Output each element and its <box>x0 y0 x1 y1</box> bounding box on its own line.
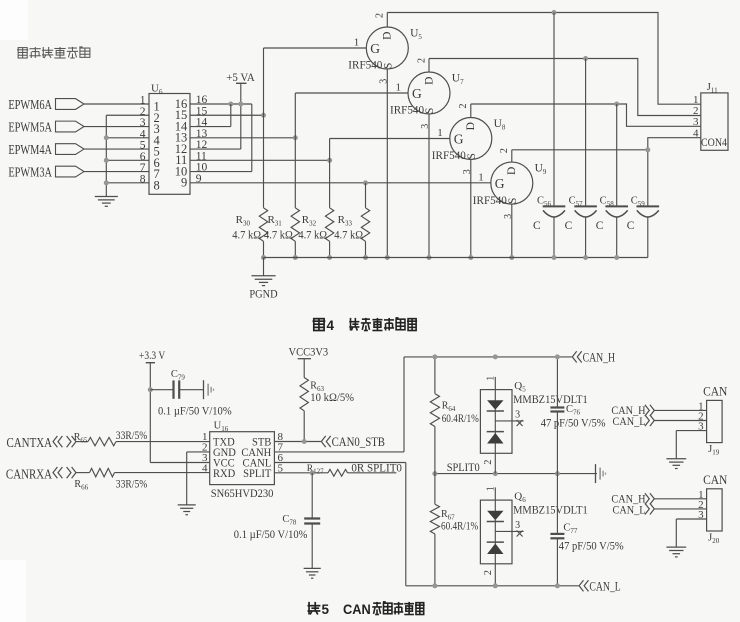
svg-text:S: S <box>507 198 519 204</box>
svg-text:EPWM5A: EPWM5A <box>8 119 52 135</box>
svg-text:2: 2 <box>375 13 386 18</box>
svg-text:S: S <box>383 63 395 69</box>
svg-text:CAN_L: CAN_L <box>613 415 646 428</box>
svg-text:1: 1 <box>354 37 360 49</box>
svg-text:5: 5 <box>322 602 330 617</box>
svg-text:SN65HVD230: SN65HVD230 <box>211 487 274 500</box>
svg-text:IRF540: IRF540 <box>432 149 466 162</box>
svg-text:2: 2 <box>458 104 469 109</box>
svg-text:2: 2 <box>499 148 510 153</box>
svg-text:CAN0_STB: CAN0_STB <box>332 435 386 449</box>
svg-text:SPLIT: SPLIT <box>243 467 271 480</box>
svg-text:MMBZ15VDLT1: MMBZ15VDLT1 <box>513 393 588 406</box>
svg-text:0R SPLIT0: 0R SPLIT0 <box>351 462 402 474</box>
svg-text:10 kΩ/5%: 10 kΩ/5% <box>310 391 354 404</box>
svg-text:4.7 kΩ: 4.7 kΩ <box>264 229 293 242</box>
svg-text:IRF540: IRF540 <box>390 103 424 116</box>
svg-text:EPWM4A: EPWM4A <box>8 141 52 157</box>
svg-text:CAN: CAN <box>343 602 371 617</box>
svg-text:4: 4 <box>140 128 146 140</box>
svg-text:4.7 kΩ: 4.7 kΩ <box>232 229 261 242</box>
svg-text:G: G <box>370 41 380 56</box>
svg-text:33R/5%: 33R/5% <box>116 478 147 491</box>
svg-text:CON4: CON4 <box>701 136 727 149</box>
svg-text:33R/5%: 33R/5% <box>116 429 147 442</box>
svg-text:D: D <box>465 122 477 130</box>
svg-text:47 pF/50 V/5%: 47 pF/50 V/5% <box>541 417 606 430</box>
svg-text:RXD: RXD <box>213 467 235 480</box>
svg-text:EPWM6A: EPWM6A <box>8 96 52 112</box>
svg-text:G: G <box>412 86 422 101</box>
svg-text:4.7 kΩ: 4.7 kΩ <box>298 229 327 242</box>
svg-text:+5 VA: +5 VA <box>226 72 255 85</box>
svg-text:1: 1 <box>486 376 497 381</box>
svg-text:+3.3 V: +3.3 V <box>139 349 165 362</box>
svg-text:D: D <box>382 32 394 40</box>
svg-text:3: 3 <box>140 117 146 129</box>
svg-text:CANTXA: CANTXA <box>7 435 52 451</box>
svg-text:S: S <box>424 108 436 114</box>
svg-text:CAN: CAN <box>703 384 728 399</box>
svg-text:2: 2 <box>483 460 494 465</box>
svg-text:G: G <box>454 132 464 147</box>
svg-text:3: 3 <box>693 116 699 128</box>
svg-text:CAN_H: CAN_H <box>583 351 615 364</box>
svg-text:2: 2 <box>416 58 427 63</box>
svg-text:1: 1 <box>140 95 146 107</box>
svg-text:CAN_L: CAN_L <box>613 504 646 517</box>
svg-text:IRF540: IRF540 <box>348 58 382 71</box>
svg-text:S: S <box>466 153 478 159</box>
svg-text:G: G <box>495 176 505 191</box>
svg-text:1: 1 <box>693 94 699 106</box>
svg-text:3: 3 <box>515 520 520 531</box>
svg-text:8: 8 <box>140 173 146 185</box>
svg-text:2: 2 <box>483 570 494 575</box>
svg-text:47 pF/50 V/5%: 47 pF/50 V/5% <box>559 540 624 553</box>
svg-text:EPWM3A: EPWM3A <box>8 164 52 180</box>
svg-text:D: D <box>423 77 435 85</box>
svg-text:60.4R/1%: 60.4R/1% <box>442 412 479 425</box>
svg-text:4: 4 <box>327 318 335 333</box>
svg-text:1: 1 <box>478 172 484 184</box>
svg-text:VCC3V3: VCC3V3 <box>289 346 329 359</box>
svg-text:3: 3 <box>515 409 520 420</box>
svg-text:60.4R/1%: 60.4R/1% <box>441 519 478 532</box>
svg-text:1: 1 <box>486 486 497 491</box>
svg-text:1: 1 <box>437 127 443 139</box>
svg-text:5: 5 <box>140 140 146 152</box>
svg-text:6: 6 <box>140 151 146 163</box>
svg-text:0.1 µF/50 V/10%: 0.1 µF/50 V/10% <box>234 528 308 541</box>
svg-text:4: 4 <box>693 127 699 139</box>
svg-text:7: 7 <box>140 162 146 174</box>
svg-text:8: 8 <box>154 178 160 192</box>
svg-text:4.7 kΩ: 4.7 kΩ <box>334 229 363 242</box>
svg-text:CAN: CAN <box>703 472 728 487</box>
svg-text:2: 2 <box>140 106 146 118</box>
svg-text:C: C <box>565 220 573 232</box>
svg-text:1: 1 <box>396 82 402 94</box>
svg-text:C: C <box>533 220 541 232</box>
svg-text:9: 9 <box>181 176 187 190</box>
svg-text:C: C <box>596 220 604 232</box>
svg-text:PGND: PGND <box>249 288 277 301</box>
svg-text:CANRXA: CANRXA <box>6 466 52 482</box>
svg-text:C: C <box>627 220 635 232</box>
svg-text:CAN_L: CAN_L <box>589 580 620 593</box>
svg-text:MMBZ15VDLT1: MMBZ15VDLT1 <box>513 504 588 517</box>
svg-text:0.1 µF/50 V/10%: 0.1 µF/50 V/10% <box>158 405 232 418</box>
svg-text:SPLIT0: SPLIT0 <box>447 462 480 475</box>
svg-text:IRF540: IRF540 <box>473 193 507 206</box>
svg-text:D: D <box>506 167 518 175</box>
